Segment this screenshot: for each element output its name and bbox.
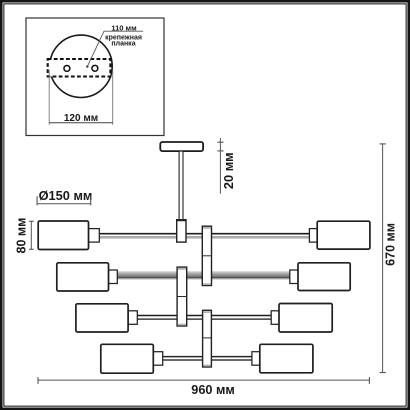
svg-text:120 мм: 120 мм: [64, 113, 98, 124]
svg-text:планка: планка: [111, 40, 135, 47]
svg-text:80 мм: 80 мм: [14, 218, 28, 254]
svg-text:20 мм: 20 мм: [221, 152, 236, 189]
svg-text:960 мм: 960 мм: [191, 383, 234, 397]
svg-text:Ø150 мм: Ø150 мм: [39, 188, 93, 203]
svg-text:110 мм: 110 мм: [111, 23, 137, 32]
svg-text:670 мм: 670 мм: [383, 223, 397, 266]
